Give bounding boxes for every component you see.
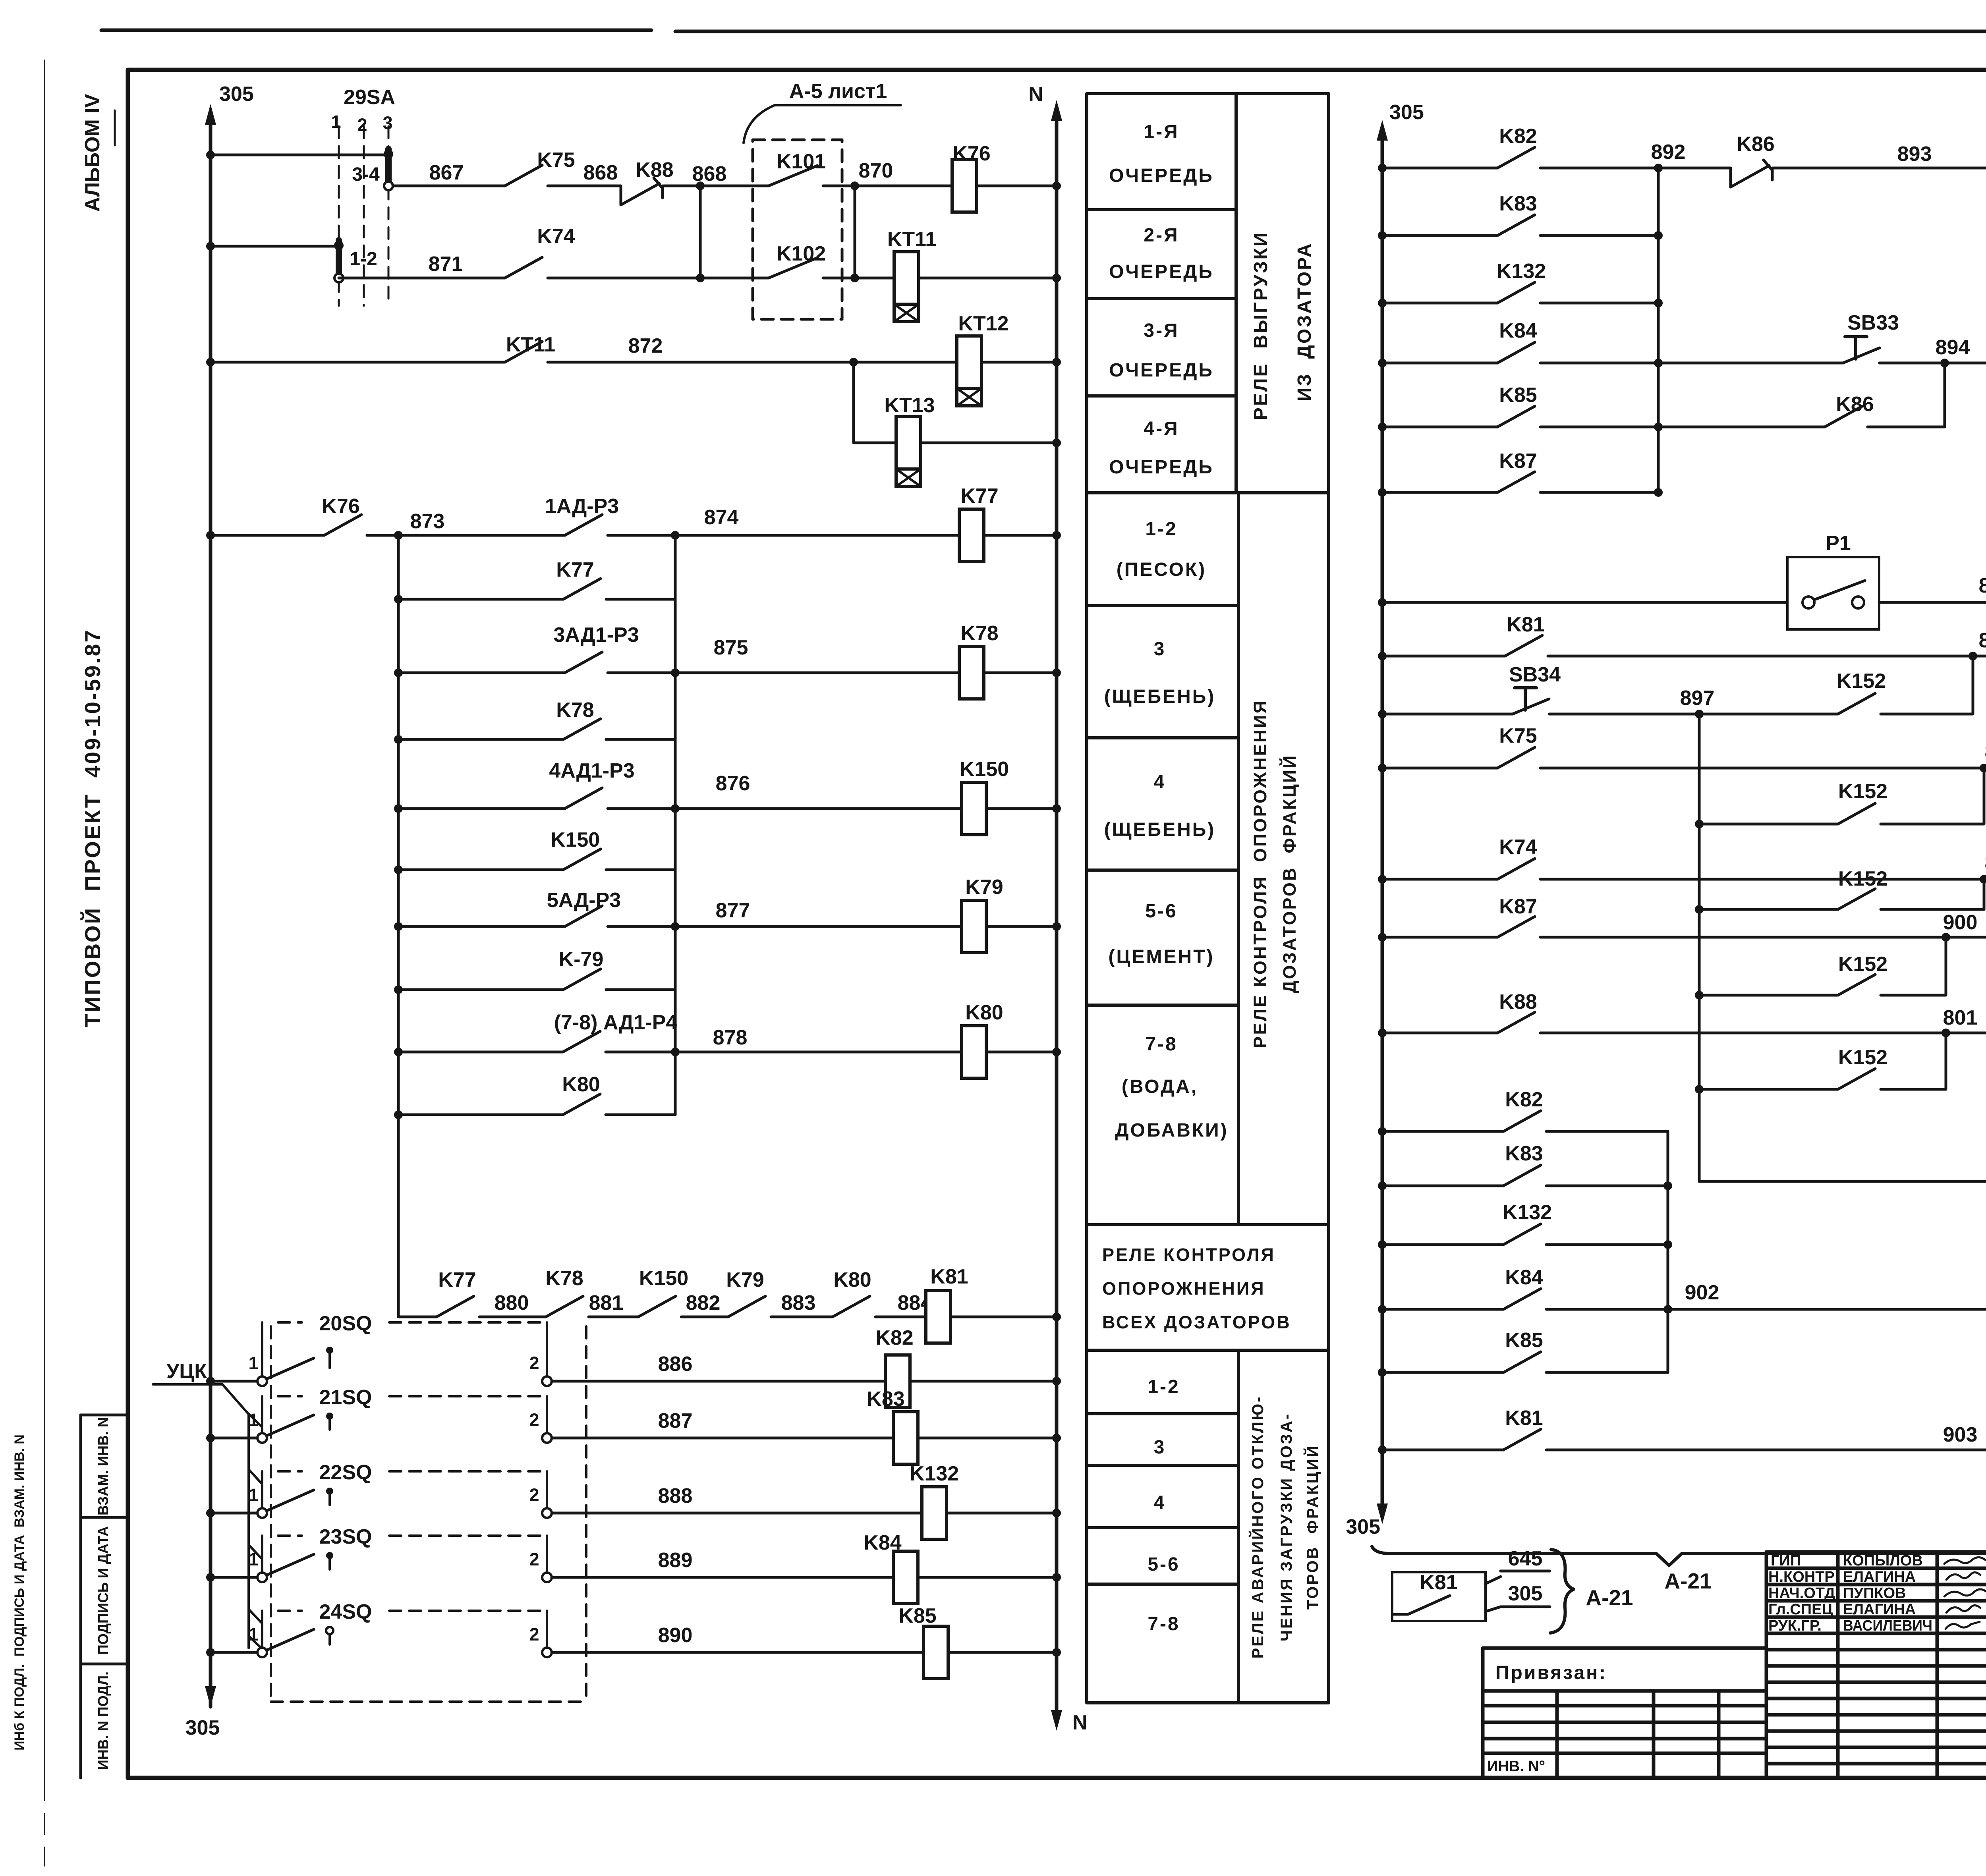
row R8: contact K81 <box>1378 613 1986 660</box>
reference contact K81 box <box>1392 1571 1486 1621</box>
row R5: contact K85 <box>1378 384 1825 431</box>
svg-text:K132: K132 <box>1503 1201 1552 1224</box>
svg-text:24SQ: 24SQ <box>319 1600 372 1623</box>
svg-text:(ЦЕМЕНТ): (ЦЕМЕНТ) <box>1108 946 1214 967</box>
svg-text:ДОБАВКИ): ДОБАВКИ) <box>1115 1120 1228 1141</box>
svg-text:2: 2 <box>357 115 367 135</box>
wire K80 to N <box>986 1048 1061 1056</box>
node 897 <box>1549 687 1838 718</box>
wire 888 <box>552 1512 922 1515</box>
svg-text:РЕЛЕ АВАРИЙНОГО ОТКЛЮ-: РЕЛЕ АВАРИЙНОГО ОТКЛЮ- <box>1248 1395 1267 1658</box>
wire K76 to N <box>977 181 1061 190</box>
svg-text:K152: K152 <box>1838 953 1887 976</box>
coil K83 <box>893 1412 918 1464</box>
coil K150 <box>960 758 1009 835</box>
coil K132 <box>922 1487 947 1539</box>
row R13: contact K152 <box>1695 867 1984 914</box>
svg-text:K152: K152 <box>1838 1046 1887 1069</box>
svg-text:886: 886 <box>658 1353 693 1376</box>
row L13: contact (7-8)AD1-R4 <box>394 1011 677 1056</box>
svg-text:K81: K81 <box>1507 613 1544 636</box>
wire K77 to N <box>984 531 1061 540</box>
svg-text:(ЩЕБЕНЬ): (ЩЕБЕНЬ) <box>1104 819 1216 840</box>
svg-text:K83: K83 <box>1499 192 1537 215</box>
svg-text:875: 875 <box>714 636 748 659</box>
svg-text:893: 893 <box>1897 143 1932 166</box>
pr box <box>1483 1648 1766 1778</box>
collector A <box>397 535 400 1317</box>
wire K79 to N <box>986 922 1061 931</box>
svg-text:K86: K86 <box>1737 133 1774 156</box>
svg-text:881: 881 <box>589 1291 624 1314</box>
big brace A-21 <box>1372 1546 1986 1593</box>
wire 884 <box>875 1291 932 1317</box>
svg-text:(7-8) АД1-Р4: (7-8) АД1-Р4 <box>554 1011 678 1034</box>
svg-text:KT12: KT12 <box>958 312 1008 335</box>
svg-text:305: 305 <box>185 1716 220 1739</box>
svg-text:7-8: 7-8 <box>1145 1034 1177 1055</box>
dashed box A-5 <box>744 80 901 319</box>
time relay coil KT12 <box>957 312 1009 406</box>
row R9: push button SB34 <box>1378 663 1561 718</box>
svg-text:305: 305 <box>1508 1582 1543 1605</box>
svg-text:903: 903 <box>1943 1423 1978 1446</box>
row L11: contact 5AD-R3 <box>394 889 621 931</box>
svg-text:900: 900 <box>1943 911 1978 934</box>
svg-text:K74: K74 <box>1499 836 1537 859</box>
row R21: contact K84 <box>1378 1266 1986 1314</box>
svg-text:867: 867 <box>429 161 464 184</box>
contact K86 <box>1825 393 1874 427</box>
wire 305 stub <box>1486 1582 1550 1612</box>
coil K79 <box>962 876 1003 953</box>
collector B <box>674 535 677 1115</box>
row 15 header wire <box>398 1316 437 1318</box>
coil K81 <box>926 1265 968 1343</box>
svg-text:K152: K152 <box>1838 780 1887 803</box>
row R19: contact K83 <box>1378 1142 1672 1190</box>
row R7: pressure relay P1 <box>1378 532 1879 629</box>
svg-text:ОЧЕРЕДЬ: ОЧЕРЕДЬ <box>1109 165 1214 186</box>
svg-text:801: 801 <box>1943 1006 1978 1029</box>
table row texts: queues <box>1104 122 1229 1141</box>
svg-text:889: 889 <box>658 1549 693 1572</box>
UCK gang line <box>247 1414 250 1648</box>
svg-text:877: 877 <box>716 899 750 922</box>
bus 305 left <box>185 83 254 1739</box>
svg-text:K81: K81 <box>1420 1571 1457 1594</box>
wire 868a <box>664 162 769 186</box>
svg-text:K81: K81 <box>1505 1407 1543 1430</box>
riser 894 <box>1868 363 1945 427</box>
svg-text:2: 2 <box>529 1485 539 1505</box>
time relay coil KT11 <box>887 228 937 322</box>
svg-text:K88: K88 <box>636 158 673 181</box>
svg-text:K85: K85 <box>898 1604 936 1627</box>
contact K80 (row15) <box>833 1268 871 1317</box>
svg-text:K132: K132 <box>1497 260 1546 283</box>
svg-text:SB33: SB33 <box>1847 311 1899 334</box>
UCK cable label <box>153 1360 248 1414</box>
svg-text:K75: K75 <box>537 149 575 172</box>
svg-text:KT11: KT11 <box>506 333 555 356</box>
svg-text:K101: K101 <box>777 150 826 173</box>
node 892 <box>1540 141 1731 172</box>
wire 881 <box>589 1291 638 1317</box>
svg-text:K102: K102 <box>777 242 826 265</box>
svg-text:21SQ: 21SQ <box>319 1386 372 1409</box>
svg-text:3: 3 <box>1154 639 1166 660</box>
wire 895 <box>1879 574 1986 602</box>
svg-text:K84: K84 <box>864 1531 901 1554</box>
svg-text:АЛЬБОМ IV: АЛЬБОМ IV <box>81 94 104 212</box>
svg-text:3АД1-Р3: 3АД1-Р3 <box>553 623 639 647</box>
svg-text:ОЧЕРЕДЬ: ОЧЕРЕДЬ <box>1109 457 1214 478</box>
wire KT12 to N <box>981 358 1061 367</box>
wire 868 <box>548 161 621 186</box>
svg-text:868: 868 <box>692 162 727 185</box>
wire to KT11 <box>823 274 894 282</box>
svg-text:888: 888 <box>658 1484 693 1507</box>
svg-text:2: 2 <box>529 1410 539 1430</box>
svg-text:2: 2 <box>529 1353 539 1373</box>
svg-text:ВЗАМ. ИНВ. N: ВЗАМ. ИНВ. N <box>95 1417 111 1515</box>
row R16: contact K88 <box>1378 990 1986 1037</box>
svg-text:K85: K85 <box>1499 384 1537 407</box>
row R12: contact K74 <box>1378 836 1986 884</box>
wire 883 <box>771 1291 833 1317</box>
small brace <box>1550 1550 1574 1633</box>
link node 870 to row L2 <box>854 186 856 278</box>
switch 29SA poles <box>339 126 388 306</box>
svg-text:1: 1 <box>331 112 341 132</box>
svg-text:1АД-Р3: 1АД-Р3 <box>545 495 619 518</box>
wire 645 stub <box>1486 1547 1550 1584</box>
node line 897 <box>1698 714 1701 1181</box>
svg-text:ОЧЕРЕДЬ: ОЧЕРЕДЬ <box>1109 261 1214 282</box>
svg-text:ДОЗАТОРОВ ФРАКЦИЙ: ДОЗАТОРОВ ФРАКЦИЙ <box>1279 754 1300 994</box>
svg-text:ОЧЕРЕДЬ: ОЧЕРЕДЬ <box>1109 360 1214 381</box>
row R14: contact K87 <box>1378 895 1986 942</box>
breaker contact K88 <box>621 158 674 205</box>
UCK taps to switches <box>249 1414 261 1648</box>
wire 889 <box>552 1576 893 1579</box>
wire 871 to K102 <box>548 277 769 280</box>
svg-text:ЕЛАГИНА: ЕЛАГИНА <box>1843 1601 1916 1618</box>
contact K75 <box>505 149 575 186</box>
svg-text:897: 897 <box>1680 687 1715 710</box>
svg-text:РУК.ГР.: РУК.ГР. <box>1768 1617 1822 1634</box>
row L9: contact 4AD1-R3 <box>394 759 635 813</box>
svg-text:882: 882 <box>686 1291 721 1314</box>
row L1: wire 867 <box>393 161 505 186</box>
node line 892 <box>1657 168 1660 492</box>
SQ block dashed enclosure <box>271 1326 586 1702</box>
svg-text:(ЩЕБЕНЬ): (ЩЕБЕНЬ) <box>1104 686 1216 707</box>
svg-text:K82: K82 <box>875 1326 913 1349</box>
contact KT11 <box>505 333 555 362</box>
wire bus to 29SA contact 1-2 <box>206 242 339 251</box>
svg-text:890: 890 <box>658 1624 693 1647</box>
left margin stamp boxes <box>81 1415 128 1778</box>
svg-text:SB34: SB34 <box>1509 663 1561 686</box>
wire 882 <box>681 1291 728 1317</box>
svg-text:ПОДПИСЬ И ДАТА: ПОДПИСЬ И ДАТА <box>95 1526 111 1655</box>
svg-text:K80: K80 <box>562 1073 600 1096</box>
svg-text:K150: K150 <box>960 758 1009 781</box>
row R6: contact K87 <box>1378 450 1663 497</box>
svg-text:873: 873 <box>410 510 445 533</box>
travel switch 24SQ <box>206 1600 1061 1679</box>
svg-text:KT11: KT11 <box>887 228 937 251</box>
svg-text:874: 874 <box>704 506 739 529</box>
svg-text:305: 305 <box>1346 1515 1380 1538</box>
wire 893 <box>1773 143 1986 168</box>
29SA contact 1-2 <box>334 240 377 282</box>
svg-text:23SQ: 23SQ <box>319 1525 372 1548</box>
svg-text:P1: P1 <box>1826 532 1851 555</box>
svg-text:А-21: А-21 <box>1664 1569 1712 1593</box>
svg-text:883: 883 <box>781 1291 816 1314</box>
svg-text:K84: K84 <box>1499 319 1537 342</box>
svg-text:22SQ: 22SQ <box>319 1461 372 1484</box>
svg-text:1: 1 <box>248 1353 258 1373</box>
svg-text:3: 3 <box>383 113 392 133</box>
release control box text <box>1102 1245 1291 1332</box>
row R4: contact K84 <box>1378 319 1843 367</box>
svg-text:4: 4 <box>1154 772 1166 793</box>
bus 305 right <box>1346 101 1424 1538</box>
row R1: contact K82 <box>1378 125 1537 172</box>
coil K84 <box>893 1551 918 1604</box>
contact K79 (row15) <box>726 1268 765 1317</box>
signature rows <box>1768 1552 1932 1634</box>
svg-text:20SQ: 20SQ <box>319 1312 372 1335</box>
svg-text:878: 878 <box>713 1026 748 1049</box>
svg-text:880: 880 <box>495 1291 529 1314</box>
breaker contact K86 <box>1731 133 1775 187</box>
svg-text:ИНВ. N°: ИНВ. N° <box>1487 1758 1545 1775</box>
svg-text:645: 645 <box>1508 1547 1543 1570</box>
row L3: bus tap <box>206 358 505 367</box>
svg-text:3-Я: 3-Я <box>1144 320 1179 341</box>
svg-text:K85: K85 <box>1505 1329 1543 1352</box>
signature squiggles <box>1944 1557 1986 1629</box>
svg-text:2-Я: 2-Я <box>1144 225 1179 246</box>
row L10: contact K150 <box>394 828 675 874</box>
node 894 <box>1880 336 1986 367</box>
svg-text:1-2: 1-2 <box>1148 1376 1180 1397</box>
lower fraction rows <box>1148 1376 1180 1635</box>
row R23: contact K81 <box>1378 1407 1986 1454</box>
row L7: contact 3AD1-R3 <box>394 623 639 677</box>
wire KT13 to N <box>921 438 1061 447</box>
svg-text:896: 896 <box>1979 629 1986 652</box>
svg-text:868: 868 <box>583 161 618 184</box>
svg-text:K80: K80 <box>965 1001 1003 1024</box>
row R3: contact K132 <box>1378 260 1663 307</box>
row L6: contact K77 <box>394 558 675 604</box>
svg-text:4-Я: 4-Я <box>1144 418 1179 439</box>
svg-text:Привязан:: Привязан: <box>1495 1662 1607 1683</box>
svg-text:(ПЕСОК): (ПЕСОК) <box>1117 559 1207 580</box>
row R11: contact K152 <box>1695 768 1984 828</box>
svg-text:2: 2 <box>529 1624 539 1644</box>
row L2: wire 871 <box>339 253 505 278</box>
row R15: contact K152 <box>1695 937 1946 1000</box>
contact K150 (row15) <box>638 1267 688 1317</box>
svg-text:902: 902 <box>1685 1281 1719 1304</box>
svg-text:5-6: 5-6 <box>1145 901 1177 922</box>
29SA contact 3-4 <box>352 149 393 190</box>
contact K101 <box>769 150 826 186</box>
svg-text:872: 872 <box>628 334 663 357</box>
contact 1AD-R3 <box>545 495 619 535</box>
row R20: contact K132 <box>1378 1201 1672 1249</box>
travel switch 23SQ <box>206 1525 1061 1604</box>
svg-text:K150: K150 <box>639 1267 688 1290</box>
svg-text:K79: K79 <box>726 1268 764 1291</box>
svg-text:K76: K76 <box>322 495 359 518</box>
svg-text:N: N <box>1028 83 1043 106</box>
svg-text:K-79: K-79 <box>559 948 604 971</box>
node 873 <box>367 510 565 540</box>
svg-text:K87: K87 <box>1499 450 1537 473</box>
wire 872 <box>548 334 957 367</box>
svg-text:K78: K78 <box>556 699 594 722</box>
page outer top border line <box>101 30 1986 31</box>
link wire 868 to row L2 <box>696 181 705 282</box>
svg-text:870: 870 <box>859 159 893 182</box>
svg-text:K83: K83 <box>1505 1142 1543 1165</box>
svg-text:ВСЕХ ДОЗАТОРОВ: ВСЕХ ДОЗАТОРОВ <box>1102 1312 1291 1332</box>
row R18: contact K82 <box>1378 1088 1668 1136</box>
svg-text:892: 892 <box>1651 141 1686 164</box>
svg-text:А-21: А-21 <box>1586 1585 1633 1610</box>
svg-text:K74: K74 <box>537 225 575 248</box>
svg-text:K152: K152 <box>1838 867 1887 890</box>
bus N left <box>1028 83 1087 1734</box>
svg-text:1-2: 1-2 <box>350 249 377 270</box>
wire 876 <box>608 772 962 813</box>
svg-text:K80: K80 <box>833 1268 871 1291</box>
svg-text:А-5 лист1: А-5 лист1 <box>789 80 887 103</box>
svg-text:ВАСИЛЕВИЧ: ВАСИЛЕВИЧ <box>1843 1617 1932 1634</box>
row R10: contact K75 <box>1378 724 1986 772</box>
svg-text:РЕЛЕ ВЫГРУЗКИ: РЕЛЕ ВЫГРУЗКИ <box>1250 231 1271 420</box>
travel switch 21SQ <box>206 1386 1061 1464</box>
wire 880 <box>479 1291 546 1317</box>
contact K102 <box>769 242 826 278</box>
wire 890 <box>552 1651 923 1654</box>
svg-text:3: 3 <box>1154 1437 1166 1458</box>
coil K77 <box>959 484 999 562</box>
svg-text:K78: K78 <box>545 1267 583 1290</box>
svg-text:НАЧ.ОТД: НАЧ.ОТД <box>1768 1585 1835 1602</box>
coil K82 <box>885 1355 910 1407</box>
wire K78 to N <box>984 668 1061 677</box>
contact K74 <box>505 225 575 278</box>
svg-text:1-2: 1-2 <box>1145 519 1177 540</box>
svg-text:876: 876 <box>716 772 750 795</box>
svg-text:K78: K78 <box>960 622 998 645</box>
svg-text:899: 899 <box>1985 851 1986 874</box>
svg-text:K77: K77 <box>556 558 594 581</box>
svg-text:K87: K87 <box>1499 895 1537 918</box>
svg-text:K83: K83 <box>867 1388 904 1411</box>
svg-text:ИНВ. N ПОДЛ.: ИНВ. N ПОДЛ. <box>95 1671 111 1770</box>
svg-text:ЧЕНИЯ ЗАГРУЗКИ ДОЗА-: ЧЕНИЯ ЗАГРУЗКИ ДОЗА- <box>1278 1413 1295 1641</box>
wire 886 <box>552 1380 885 1383</box>
node 870 <box>823 159 952 190</box>
row L8: contact K78 <box>394 699 675 744</box>
svg-text:K132: K132 <box>910 1462 959 1485</box>
svg-text:K75: K75 <box>1499 724 1537 747</box>
coil K78 <box>959 622 999 699</box>
svg-text:K81: K81 <box>930 1265 968 1288</box>
svg-text:N: N <box>1072 1711 1088 1734</box>
svg-text:K79: K79 <box>965 876 1003 899</box>
row L12: contact K-79 <box>394 948 675 994</box>
svg-text:K82: K82 <box>1499 125 1537 148</box>
svg-text:K86: K86 <box>1836 393 1874 416</box>
wire K81 to N <box>950 1312 1061 1321</box>
wire bus to 29SA contact 3-4 <box>206 151 388 159</box>
push button SB33 <box>1843 311 1899 363</box>
svg-text:ТИПОВОЙ ПРОЕКТ 409-10-59.87: ТИПОВОЙ ПРОЕКТ 409-10-59.87 <box>80 629 105 1027</box>
coil K76 <box>952 142 991 212</box>
svg-text:1-Я: 1-Я <box>1144 122 1179 143</box>
svg-text:K77: K77 <box>960 484 998 508</box>
svg-text:898: 898 <box>1985 740 1986 763</box>
svg-text:KT13: KT13 <box>884 394 935 417</box>
svg-text:305: 305 <box>219 83 254 106</box>
svg-text:4АД1-Р3: 4АД1-Р3 <box>549 759 634 782</box>
svg-text:1: 1 <box>248 1485 258 1505</box>
svg-text:ТОРОВ ФРАКЦИЙ: ТОРОВ ФРАКЦИЙ <box>1303 1444 1321 1610</box>
wire KT11 to N <box>919 274 1061 282</box>
coil K85 <box>923 1626 948 1679</box>
row L14: contact K80 <box>394 1073 675 1119</box>
svg-text:2: 2 <box>529 1549 539 1569</box>
riser 896 <box>1881 656 1973 714</box>
contact K76 <box>322 495 361 535</box>
svg-text:РЕЛЕ КОНТРОЛЯ: РЕЛЕ КОНТРОЛЯ <box>1102 1245 1275 1265</box>
svg-text:29SA: 29SA <box>344 86 395 109</box>
coil K80 <box>962 1001 1003 1078</box>
svg-text:K84: K84 <box>1505 1266 1543 1289</box>
svg-text:K152: K152 <box>1837 670 1886 693</box>
svg-text:895: 895 <box>1979 574 1986 597</box>
wire 878 <box>606 1026 962 1056</box>
svg-text:894: 894 <box>1936 336 1970 359</box>
svg-text:(ВОДА,: (ВОДА, <box>1122 1076 1198 1097</box>
svg-text:K76: K76 <box>952 142 990 165</box>
svg-text:887: 887 <box>658 1409 693 1432</box>
svg-text:ИЗ ДОЗАТОРА: ИЗ ДОЗАТОРА <box>1294 242 1315 401</box>
row R22: contact K85 <box>1378 1329 1668 1377</box>
svg-text:K150: K150 <box>551 828 600 851</box>
contact K77 (row15) <box>437 1268 476 1317</box>
travel switch 22SQ <box>206 1461 1061 1539</box>
svg-text:ИНб К ПОДЛ. ПОДПИСЬ И ДАТА В: ИНб К ПОДЛ. ПОДПИСЬ И ДАТА ВЗАМ. ИНВ. N <box>12 1434 27 1751</box>
wire 887 <box>552 1437 893 1440</box>
coil row K152 <box>1699 1129 1986 1208</box>
svg-text:Гл.СПЕЦ: Гл.СПЕЦ <box>1768 1601 1833 1618</box>
row R17: contact K152 <box>1695 1033 1946 1094</box>
svg-text:7-8: 7-8 <box>1148 1614 1180 1635</box>
svg-text:K82: K82 <box>1505 1088 1543 1111</box>
